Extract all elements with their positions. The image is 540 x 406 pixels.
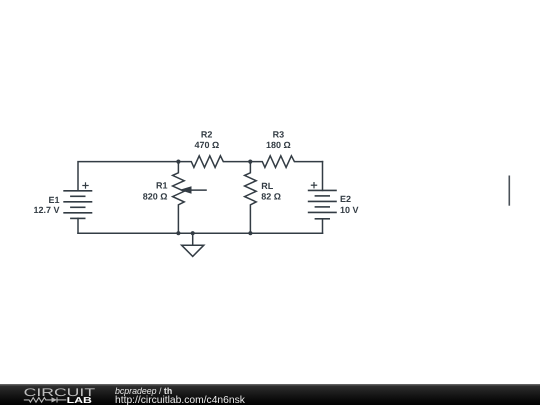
svg-text:R3: R3 <box>273 130 285 140</box>
svg-text:470 Ω: 470 Ω <box>195 140 220 150</box>
wire bottom rail <box>78 232 323 234</box>
wire E2 bottom stub <box>322 219 324 233</box>
resistor R3 <box>250 156 322 168</box>
svg-text:E1: E1 <box>48 195 59 205</box>
plus terminal mark of E2 <box>311 182 317 188</box>
junction node B (R2/R3/RL top) <box>248 160 252 164</box>
resistor R2 <box>178 156 250 168</box>
wiper arrow of R1 <box>179 186 206 194</box>
wire E1 bottom stub <box>77 218 79 233</box>
svg-text:R1: R1 <box>156 181 168 191</box>
ground <box>182 233 204 256</box>
svg-text:82 Ω: 82 Ω <box>261 191 281 201</box>
junction node A (R1/R2 top) <box>176 160 180 164</box>
junction R1 bottom <box>176 231 180 235</box>
footer url text <box>115 395 245 406</box>
svg-text:R2: R2 <box>201 130 213 140</box>
resistor R1 (potentiometer body) <box>173 162 185 234</box>
junction ground tap <box>191 231 195 235</box>
svg-text:RL: RL <box>261 181 273 191</box>
junction RL bottom <box>248 231 252 235</box>
cursor caret mark <box>508 176 510 206</box>
svg-text:E2: E2 <box>340 194 351 204</box>
footer author text <box>115 386 172 396</box>
svg-text:12.7 V: 12.7 V <box>33 205 59 215</box>
footer bar <box>0 384 540 405</box>
svg-text:LAB: LAB <box>67 395 92 405</box>
plus terminal mark of E1 <box>82 182 88 188</box>
svg-text:820 Ω: 820 Ω <box>143 192 168 202</box>
battery E1 <box>63 191 92 219</box>
wire R3 to E2 top <box>322 162 324 191</box>
svg-text:10 V: 10 V <box>340 205 359 215</box>
wire E1 top to node A <box>78 162 178 191</box>
logo resistor-diode squiggle <box>24 397 67 402</box>
svg-text:180 Ω: 180 Ω <box>266 140 291 150</box>
resistor RL <box>245 162 257 234</box>
battery E2 <box>308 190 337 218</box>
